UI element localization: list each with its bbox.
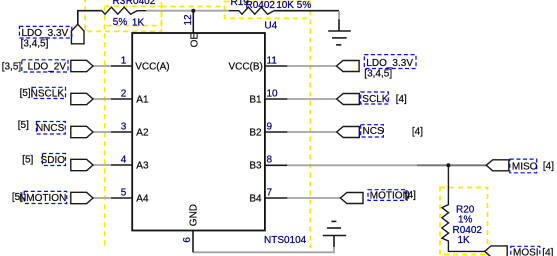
wire pin7 to port MOTION: [287, 197, 340, 199]
svg-text:4: 4: [121, 154, 127, 165]
svg-text:A4: A4: [136, 193, 149, 204]
svg-text:A1: A1: [136, 94, 149, 105]
op IC body U1 rectangle: [132, 33, 265, 231]
net label box MISO: [510, 159, 537, 173]
svg-text:GND: GND: [188, 204, 199, 226]
svg-text:1K: 1K: [458, 235, 471, 246]
svg-text:B3: B3: [249, 160, 262, 171]
port NNCS: [71, 126, 93, 137]
net label box NMOTION: [24, 191, 66, 203]
net label box MOSI: [511, 246, 540, 256]
power port LDO_3.3V (top left): [71, 24, 84, 44]
net label box SDIO: [42, 154, 65, 166]
pin 4: [111, 164, 132, 166]
svg-text:[4]: [4]: [396, 94, 407, 105]
wire pin2 to port NSCLK: [93, 98, 111, 100]
svg-text:MISO: MISO: [512, 162, 538, 173]
pin 3: [111, 131, 132, 133]
port SCLK: [337, 94, 360, 105]
svg-text:5: 5: [121, 187, 127, 198]
wire R19 to ground: [274, 10, 339, 12]
svg-text:[4]: [4]: [542, 248, 553, 256]
svg-text:8: 8: [267, 154, 273, 165]
highlight mask region around R3 (outer): [85, 0, 161, 31]
pin 10: [265, 98, 287, 100]
port NMOTION: [71, 192, 93, 203]
pin 7: [265, 197, 287, 199]
svg-text:7: 7: [267, 187, 273, 198]
svg-text:R0402: R0402: [246, 0, 276, 11]
port MISO: [486, 160, 509, 171]
wire pin1 to port LDO_2V: [93, 65, 111, 67]
highlight mask connector line: [162, 6, 225, 8]
wire segment to ground (gray): [338, 11, 340, 21]
svg-text:9: 9: [267, 121, 273, 132]
svg-text:NTS0104: NTS0104: [264, 235, 307, 246]
svg-text:1%: 1%: [458, 215, 473, 226]
svg-text:3: 3: [121, 121, 127, 132]
net label box SCLK: [361, 92, 389, 104]
wire pin11 to port LDO_3.3V: [287, 65, 336, 67]
svg-text:U4: U4: [264, 20, 277, 31]
ground symbol bottom (inverted): [323, 221, 346, 247]
svg-text:OE: OE: [190, 33, 201, 48]
svg-text:SCLK: SCLK: [362, 94, 388, 105]
port MOTION: [340, 193, 363, 204]
svg-text:B1: B1: [249, 94, 262, 105]
svg-text:NMOTION: NMOTION: [19, 193, 66, 204]
svg-text:LDO_3.3V: LDO_3.3V: [22, 28, 69, 39]
svg-text:10: 10: [267, 88, 279, 99]
svg-text:[5]: [5]: [18, 120, 29, 131]
svg-text:NCS: NCS: [363, 126, 384, 137]
junction node pin12/top rail: [191, 9, 195, 13]
port NCS: [337, 127, 360, 138]
svg-text:NSCLK: NSCLK: [31, 88, 65, 99]
wire pin8 to port MISO (light segment): [287, 164, 417, 166]
svg-text:A3: A3: [136, 160, 149, 171]
wire top rail R3 to R19 (gray): [146, 10, 229, 12]
svg-text:VCC(B): VCC(B): [228, 61, 262, 72]
pin 1: [111, 65, 132, 67]
pin 12 OE: [192, 11, 194, 33]
highlight mask vertical line right: [309, 2, 311, 249]
pin 11: [265, 65, 287, 67]
port LDO_3.3V right: [337, 61, 360, 72]
svg-text:LDO_3.3V: LDO_3.3V: [366, 58, 413, 69]
svg-text:1K: 1K: [132, 17, 145, 28]
net label box MOTION: [368, 190, 407, 201]
wire pin10 to port SCLK: [287, 98, 336, 100]
pin 6: [192, 231, 194, 253]
pin 5: [111, 197, 132, 199]
net label box LDO_2V: [22, 60, 68, 72]
svg-text:R0402: R0402: [126, 0, 156, 7]
net label box LDO_3.3V right: [364, 55, 416, 69]
port LDO_2V: [71, 60, 93, 71]
svg-text:R3: R3: [113, 0, 126, 7]
port MOSI: [485, 246, 508, 256]
wire pin8 to port MISO (dark segment): [417, 164, 486, 166]
resistor R3: [102, 7, 146, 14]
resistor R20 with leads: [442, 166, 485, 252]
highlight mask region around R3 (inner): [105, 6, 162, 25]
svg-text:VCC(A): VCC(A): [135, 61, 169, 72]
pin 9: [265, 131, 287, 133]
port NSCLK: [71, 93, 93, 104]
port SDIO: [71, 159, 93, 170]
svg-text:LDO_2V: LDO_2V: [28, 61, 67, 72]
net label box NSCLK: [32, 87, 66, 98]
net label box LDO_3.3V top left: [19, 26, 71, 38]
ground symbol top: [328, 20, 351, 45]
svg-text:[5]: [5]: [20, 88, 31, 99]
svg-text:5%: 5%: [113, 17, 128, 28]
svg-text:[4]: [4]: [543, 161, 554, 172]
svg-text:B2: B2: [249, 127, 262, 138]
svg-text:MOTION: MOTION: [370, 190, 410, 201]
svg-text:11: 11: [267, 55, 278, 66]
highlight mask region around R20: [440, 188, 488, 255]
pin 8: [265, 164, 287, 166]
svg-text:MOSI: MOSI: [513, 248, 539, 256]
highlight mask region around R19: [225, 2, 311, 19]
svg-text:6: 6: [182, 237, 193, 243]
svg-text:NNCS: NNCS: [36, 123, 65, 134]
net label box NCS: [361, 125, 384, 137]
wire pin5 to port NMOTION: [93, 197, 111, 199]
pin 2: [111, 98, 132, 100]
resistor R19: [229, 7, 274, 14]
wire power port to R3: [78, 11, 102, 25]
svg-text:B4: B4: [249, 193, 262, 204]
wire pin6 GND to ground symbol: [193, 247, 334, 253]
svg-text:[4]: [4]: [412, 126, 423, 137]
svg-text:[3,4,5]: [3,4,5]: [21, 38, 49, 49]
wire pin3 to port NNCS: [93, 131, 111, 133]
svg-text:[3,5]: [3,5]: [2, 61, 22, 72]
highlight mask vertical line left: [104, 6, 106, 249]
svg-text:[3,4,5]: [3,4,5]: [364, 69, 392, 80]
svg-text:SDIO: SDIO: [41, 155, 66, 166]
junction node pin8/R20: [446, 163, 450, 167]
net label box NNCS: [36, 122, 65, 135]
svg-text:A2: A2: [136, 127, 149, 138]
svg-text:2: 2: [121, 88, 127, 99]
wire pin4 to port SDIO: [93, 164, 111, 166]
svg-text:[4]: [4]: [405, 190, 416, 201]
svg-text:10K 5%: 10K 5%: [276, 0, 311, 11]
svg-text:1: 1: [121, 55, 127, 66]
wire pin9 to port NCS: [287, 131, 336, 133]
svg-text:[5]: [5]: [22, 155, 33, 166]
svg-text:12: 12: [183, 14, 194, 26]
